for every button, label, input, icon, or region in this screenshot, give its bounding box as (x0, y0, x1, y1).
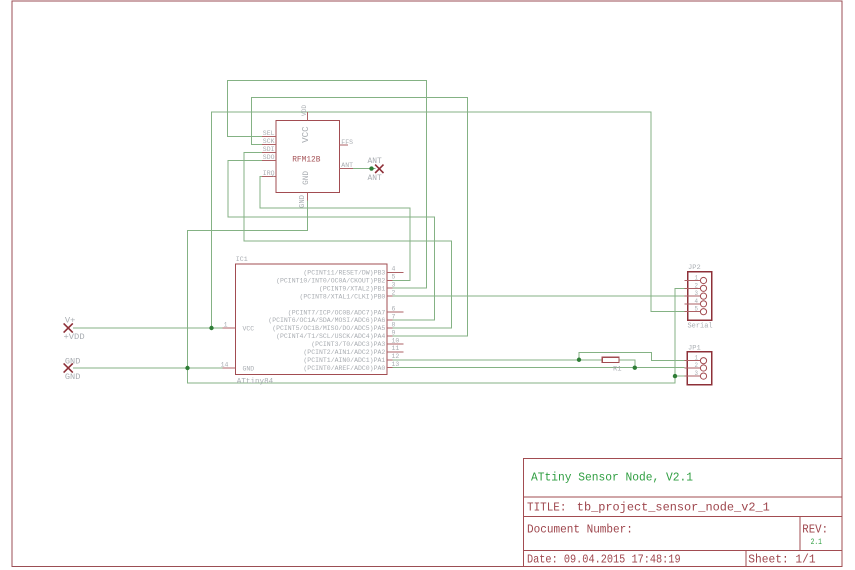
svg-text:6: 6 (392, 305, 396, 312)
svg-text:ANT: ANT (368, 157, 382, 166)
svg-text:(PCINT8/XTAL1/CLKI)PB0: (PCINT8/XTAL1/CLKI)PB0 (300, 293, 386, 300)
svg-text:FFS: FFS (341, 139, 353, 146)
svg-text:REV:: REV: (802, 523, 828, 537)
svg-text:GND: GND (303, 171, 311, 185)
svg-text:Date: 09.04.2015 17:48:19: Date: 09.04.2015 17:48:19 (527, 553, 681, 567)
svg-text:1: 1 (695, 275, 699, 282)
svg-text:VCC: VCC (300, 126, 311, 143)
svg-text:Serial: Serial (688, 322, 713, 330)
svg-text:(PCINT6/OC1A/SDA/MOSI/ADC6)PA6: (PCINT6/OC1A/SDA/MOSI/ADC6)PA6 (268, 317, 385, 324)
svg-text:1: 1 (695, 355, 699, 362)
svg-text:SEL: SEL (263, 130, 275, 137)
svg-text:(PCINT9/XTAL2)PB1: (PCINT9/XTAL2)PB1 (319, 285, 385, 292)
svg-text:ANT: ANT (341, 162, 353, 169)
svg-text:11: 11 (392, 345, 400, 352)
svg-text:Sheet: 1/1: Sheet: 1/1 (748, 553, 815, 567)
svg-text:tb_project_sensor_node_v2_1: tb_project_sensor_node_v2_1 (577, 501, 770, 515)
svg-text:VCC: VCC (243, 326, 255, 333)
svg-text:7: 7 (392, 313, 396, 320)
svg-text:SDO: SDO (263, 154, 275, 161)
svg-text:IC1: IC1 (236, 256, 248, 263)
svg-text:(PCINT1/AIN0/ADC1)PA1: (PCINT1/AIN0/ADC1)PA1 (303, 357, 385, 364)
svg-text:GND: GND (65, 372, 81, 382)
svg-text:3: 3 (695, 290, 699, 297)
svg-text:JP2: JP2 (688, 264, 701, 271)
svg-text:(PCINT11/RESET/DW)PB3: (PCINT11/RESET/DW)PB3 (303, 270, 385, 277)
svg-text:3: 3 (392, 282, 396, 289)
svg-text:GND: GND (243, 366, 255, 373)
svg-text:ATtiny Sensor Node, V2.1: ATtiny Sensor Node, V2.1 (531, 471, 693, 485)
svg-text:4: 4 (695, 298, 699, 305)
svg-text:GND: GND (65, 357, 81, 367)
svg-text:(PCINT3/T0/ADC3)PA3: (PCINT3/T0/ADC3)PA3 (311, 341, 385, 348)
svg-text:VDD: VDD (301, 105, 308, 116)
svg-text:10: 10 (392, 337, 400, 344)
svg-text:GND: GND (299, 195, 307, 208)
svg-text:JP1: JP1 (688, 345, 701, 352)
svg-text:SDI: SDI (263, 146, 275, 153)
svg-text:TITLE:: TITLE: (527, 501, 566, 515)
svg-text:ATtiny84: ATtiny84 (237, 378, 274, 386)
svg-text:RFM12B: RFM12B (292, 155, 320, 165)
svg-text:(PCINT2/AIN1/ADC2)PA2: (PCINT2/AIN1/ADC2)PA2 (303, 349, 385, 356)
svg-text:+VDD: +VDD (64, 332, 85, 342)
svg-text:4: 4 (392, 266, 396, 273)
svg-text:8: 8 (392, 321, 396, 328)
svg-text:SCK: SCK (263, 138, 275, 145)
svg-text:(PCINT10/INT0/OC0A/CKOUT)PB2: (PCINT10/INT0/OC0A/CKOUT)PB2 (276, 277, 385, 284)
svg-text:2: 2 (695, 282, 699, 289)
svg-text:9: 9 (392, 329, 396, 336)
svg-text:14: 14 (221, 361, 229, 368)
svg-text:(PCINT5/OC1B/MISO/DO/ADC5)PA5: (PCINT5/OC1B/MISO/DO/ADC5)PA5 (272, 325, 385, 332)
svg-text:(PCINT4/T1/SCL/USCK/ADC4)PA4: (PCINT4/T1/SCL/USCK/ADC4)PA4 (276, 333, 385, 340)
svg-text:5: 5 (695, 306, 699, 313)
svg-text:13: 13 (392, 361, 400, 368)
svg-text:V+: V+ (65, 316, 76, 325)
svg-text:2.1: 2.1 (811, 538, 822, 547)
svg-text:1: 1 (224, 321, 228, 328)
svg-text:2: 2 (392, 290, 396, 297)
svg-text:IRQ: IRQ (263, 170, 275, 177)
svg-text:2: 2 (695, 362, 699, 369)
svg-text:5: 5 (392, 274, 396, 281)
svg-text:Document Number:: Document Number: (527, 523, 633, 537)
svg-text:ANT: ANT (368, 174, 382, 183)
svg-text:12: 12 (392, 353, 400, 360)
svg-text:3: 3 (695, 370, 699, 377)
svg-text:(PCINT7/ICP/OC0B/ADC7)PA7: (PCINT7/ICP/OC0B/ADC7)PA7 (288, 309, 386, 316)
svg-text:R1: R1 (613, 365, 622, 373)
svg-text:(PCINT0/AREF/ADC0)PA0: (PCINT0/AREF/ADC0)PA0 (303, 365, 385, 372)
